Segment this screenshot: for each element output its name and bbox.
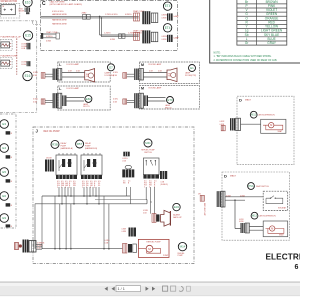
connector CM1 red half <box>113 72 127 78</box>
box J label <box>36 128 61 133</box>
svg-text:M: M <box>271 227 273 231</box>
svg-text:HARNESS-WIRE: HARNESS-WIRE <box>52 23 67 26</box>
wires down from plug P2 <box>126 187 130 204</box>
node M13 label <box>259 114 276 117</box>
node P5A circle <box>248 183 255 190</box>
note text under table <box>214 53 278 63</box>
svg-text:GRAY: GRAY <box>267 41 277 45</box>
divider jog to box C <box>33 21 41 25</box>
ground node G3 <box>0 168 9 177</box>
horn wire labels <box>143 210 149 214</box>
node E15 circle <box>23 31 32 40</box>
D2 wire labels <box>226 196 245 198</box>
table color name column <box>261 0 283 45</box>
wire pair W1 W2 <box>40 16 138 19</box>
svg-text:SWITCH: SWITCH <box>144 152 152 154</box>
svg-text:REFUEL PUMP: REFUEL PUMP <box>146 242 161 244</box>
svg-text:2. WATERPROOF CONNECTORS USED: 2. WATERPROOF CONNECTORS USED ON REAR OF… <box>214 59 278 62</box>
node M13B circle <box>251 212 258 219</box>
svg-text:REF OIL PUMP: REF OIL PUMP <box>44 131 61 133</box>
connector group CG2 red half <box>133 30 145 41</box>
svg-text:ROOM LAMP: ROOM LAMP <box>149 87 162 90</box>
svg-text:1.25RG: 1.25RG <box>104 33 111 35</box>
wire into L1 <box>45 74 53 77</box>
ground node G1 pin <box>6 131 13 135</box>
ground node G4 pin <box>6 203 13 207</box>
bus wire H3 bottom <box>42 248 123 250</box>
branch wires to horn connector <box>35 196 155 249</box>
switch block SW1 wire labels <box>144 181 157 189</box>
node M13B label <box>260 215 277 218</box>
svg-text:1.25RG 0.5RG: 1.25RG 0.5RG <box>105 14 118 16</box>
ground node G5 pin <box>6 224 13 228</box>
divider top-left horizontal <box>0 20 37 22</box>
svg-text:0.5RL: 0.5RL <box>113 99 118 101</box>
connector CL2 red half <box>33 99 45 105</box>
box L1 border <box>58 62 110 82</box>
node M14 label <box>178 253 185 257</box>
connector CL1 black half <box>53 69 62 81</box>
bus wire H1 <box>42 195 130 197</box>
box C title text <box>50 1 83 6</box>
svg-text:RM LTD: RM LTD <box>165 107 173 109</box>
svg-text:0.5GL: 0.5GL <box>21 64 26 66</box>
node ET9 circle <box>167 97 174 104</box>
svg-text:ROOM LAMP: ROOM LAMP <box>149 63 162 66</box>
svg-text:0.5RL: 0.5RL <box>33 72 38 74</box>
svg-text:HARNESS-WIRE: HARNESS-WIRE <box>52 13 67 16</box>
connector CD2 red half <box>198 193 204 201</box>
diode block D5 <box>45 157 54 171</box>
svg-text:FLASHER BACK-UP: FLASHER BACK-UP <box>1 36 22 39</box>
node E80 circle <box>85 95 92 102</box>
svg-text:RM: RM <box>168 76 171 78</box>
svg-text:REFUEL PUMP: REFUEL PUMP <box>203 203 205 217</box>
svg-text:HARNESS-WIRE: HARNESS-WIRE <box>52 19 67 22</box>
box C border <box>40 1 177 51</box>
svg-text:WIPER MOTOR: WIPER MOTOR <box>1 1 18 3</box>
svg-text:E16: E16 <box>25 74 31 78</box>
node M13 circle <box>250 111 257 118</box>
wires M2 <box>148 98 166 102</box>
node E10 circle <box>23 0 32 7</box>
svg-text:PUMP: PUMP <box>163 255 169 257</box>
wire color table grid <box>237 0 287 45</box>
plug P2 component <box>122 165 134 184</box>
connector CT2 under lower ET4 <box>162 35 180 42</box>
node ET9 label <box>165 104 173 109</box>
wire hatch column <box>16 38 18 74</box>
svg-text:MAST: MAST <box>245 99 252 102</box>
svg-text:E10: E10 <box>25 0 31 4</box>
node P5A label <box>256 185 269 188</box>
svg-text:0.5RL: 0.5RL <box>33 99 38 101</box>
svg-text:E1: E1 <box>190 66 194 70</box>
wire into M2 <box>127 100 135 102</box>
connector CM1 black half <box>134 69 143 81</box>
node M14 circle <box>178 242 186 250</box>
svg-text:DOOR LAMP: DOOR LAMP <box>67 87 80 90</box>
svg-text:(WITH CAB ROOF LAMP GUARD): (WITH CAB ROOF LAMP GUARD) <box>50 3 83 6</box>
svg-text:E32: E32 <box>174 205 179 209</box>
node E1 circle <box>189 65 196 72</box>
connector CM2 black half <box>134 93 148 108</box>
ground node G3 pin <box>6 179 13 183</box>
box C label <box>42 1 46 7</box>
node E1 label <box>185 72 196 77</box>
inline connector J1 on W1 <box>82 11 91 19</box>
svg-text:AIR SUSPENSION: AIR SUSPENSION <box>259 114 276 117</box>
svg-text:M: M <box>141 63 144 67</box>
wires down from switch SW1 <box>146 187 154 205</box>
svg-text:E9: E9 <box>2 216 6 220</box>
svg-text:M13: M13 <box>252 214 258 218</box>
stub wires left with battery tap <box>41 31 59 43</box>
svg-text:NOTE:: NOTE: <box>214 53 221 55</box>
box L1 label <box>59 63 79 67</box>
harness label mid rows <box>52 19 67 26</box>
svg-text:5: 5 <box>69 187 70 189</box>
node E7 label <box>105 72 115 77</box>
relay R5T label <box>85 142 98 150</box>
ground node G2 pin <box>6 155 13 159</box>
refuel pump inline connector CP2 <box>123 244 137 254</box>
box D1 label <box>239 97 252 102</box>
svg-text:MAST: MAST <box>230 175 237 178</box>
svg-text:P5A: P5A <box>248 184 253 188</box>
horn BZ1 symbol <box>161 210 171 226</box>
svg-text:ET4: ET4 <box>165 26 171 30</box>
resistor RS1 component <box>122 152 129 163</box>
ground node G4 <box>0 192 9 201</box>
svg-text:0.85B: 0.85B <box>46 41 52 43</box>
svg-text:(HARNESS A): (HARNESS A) <box>61 147 73 150</box>
svg-text:M: M <box>270 123 272 127</box>
box D1 border <box>237 96 294 165</box>
wires L1 <box>62 71 85 77</box>
divider vertical <box>36 21 38 113</box>
relay R3B node circle <box>51 140 59 148</box>
svg-text:RL: RL <box>98 185 100 187</box>
box L2 border <box>58 86 110 110</box>
vertical harness label right of J <box>203 203 205 217</box>
wires M1 <box>143 71 167 77</box>
box M1 border <box>139 62 199 84</box>
lower branch labels <box>104 33 142 42</box>
svg-text:E5: E5 <box>2 170 6 174</box>
relay block K1 wire labels <box>57 181 76 189</box>
svg-text:C: C <box>42 1 46 7</box>
ground node G5 <box>0 214 9 223</box>
svg-text:1 / 1: 1 / 1 <box>118 287 125 291</box>
wires down from relay K1 <box>59 187 74 204</box>
svg-text:FLASHER TURN: FLASHER TURN <box>1 54 18 57</box>
connector CJ-L stub wires <box>36 244 42 249</box>
relay block K2 body <box>81 153 102 175</box>
svg-text:DOOR LAMP: DOOR LAMP <box>67 63 80 66</box>
svg-text:E6: E6 <box>2 194 6 198</box>
relay block K2 wire labels <box>82 181 101 189</box>
svg-text:D: D <box>239 97 242 102</box>
connector CJ-L wire labels <box>37 243 43 250</box>
svg-text:0.85RG: 0.85RG <box>125 14 132 16</box>
svg-text:Gr: Gr <box>245 41 249 45</box>
svg-text:SEAT SWITCH: SEAT SWITCH <box>256 185 269 188</box>
label text above flasher unit FU1 <box>1 1 18 3</box>
wire labels above bus H3 <box>41 240 110 244</box>
svg-text:DR LTD: DR LTD <box>83 106 90 108</box>
lower branch wire pair <box>100 35 139 37</box>
relay R5T node circle <box>76 140 84 148</box>
svg-text:DIODE: DIODE <box>46 157 52 159</box>
svg-text:0.85B: 0.85B <box>162 39 168 41</box>
box M1 label <box>141 63 162 67</box>
flasher unit FU1 body <box>1 5 15 15</box>
page title ELECTRIC <box>266 252 308 261</box>
flasher F1 dashed enclosure <box>0 39 12 50</box>
junction drop wires <box>100 16 102 36</box>
box M2 label <box>141 86 162 90</box>
lamp RH door lamp <box>85 69 95 82</box>
svg-text:R3B: R3B <box>52 142 58 146</box>
lamp center room lamp <box>167 68 177 82</box>
box D2 border <box>222 172 289 240</box>
connector CL2 black half <box>53 93 67 108</box>
connector group CG1 black half <box>142 11 158 24</box>
svg-text:ET9: ET9 <box>167 98 173 102</box>
node ET4 lower circle <box>163 24 171 32</box>
connector CN-B pins with labels <box>21 43 31 50</box>
label FLASHER-2 <box>1 54 18 57</box>
svg-text:ELECTRIC: ELECTRIC <box>266 252 301 261</box>
svg-text:2WAY: 2WAY <box>82 11 88 14</box>
svg-text:E15: E15 <box>25 34 31 38</box>
seat switch sub-box <box>263 191 288 210</box>
refuel pump M3 box <box>138 239 169 257</box>
svg-text:AIR SUSPENSION: AIR SUSPENSION <box>260 215 277 218</box>
svg-text:PUMP: PUMP <box>178 255 184 257</box>
svg-text:0.5RL: 0.5RL <box>113 72 118 74</box>
small connector CN-J <box>160 171 168 186</box>
connector CN-A pins <box>25 8 31 15</box>
node E32 label <box>173 213 182 218</box>
inline connector CD3 <box>239 219 249 233</box>
svg-text:0.85RG: 0.85RG <box>46 36 53 38</box>
svg-text:E7: E7 <box>109 65 113 69</box>
horn connector CH <box>152 214 160 223</box>
svg-text:2: 2 <box>149 187 150 189</box>
connector CJ-L red half at box J left edge <box>15 243 22 250</box>
pump relay M41 label <box>141 150 155 154</box>
svg-text:M14: M14 <box>180 245 186 249</box>
drop wires to bus H3 <box>55 196 109 249</box>
mid wire H1b <box>95 199 146 201</box>
bus wire H2 <box>35 200 147 205</box>
ground node G1 <box>0 120 9 129</box>
connector CD1 red half <box>220 121 226 131</box>
svg-text:E4: E4 <box>2 146 6 150</box>
flasher unit FU1 dashed enclosure <box>0 4 20 18</box>
svg-text:0.5RG 0.5RG: 0.5RG 0.5RG <box>52 11 64 13</box>
svg-text:M: M <box>141 86 144 90</box>
svg-text:ROOM(CTR): ROOM(CTR) <box>185 75 196 77</box>
box J border <box>33 127 194 264</box>
connector CM2 red half <box>113 99 127 105</box>
ground node G2 <box>0 144 9 153</box>
inline connector J2 on lower branch <box>119 34 126 39</box>
svg-text:LAMP: LAMP <box>174 15 180 18</box>
svg-text:ET4: ET4 <box>165 4 171 8</box>
connector group CG1 red half <box>133 10 145 21</box>
svg-text:5: 5 <box>94 187 95 189</box>
flasher F2 body with zigzag <box>1 60 11 66</box>
svg-text:SW-SEAT: SW-SEAT <box>278 207 287 210</box>
svg-text:LAMP: LAMP <box>174 37 180 40</box>
relay block K1 body <box>56 153 77 175</box>
svg-text:1. "BR" INDICATES BLACK CABLE: 1. "BR" INDICATES BLACK CABLE WITH RED S… <box>214 55 272 58</box>
svg-text:2W: 2W <box>198 193 201 195</box>
box D2 label <box>224 173 237 178</box>
svg-text:6: 6 <box>295 264 299 271</box>
svg-text:D: D <box>224 173 227 178</box>
refuel pump connector CP red half <box>122 228 137 237</box>
wire into M1 <box>127 74 135 77</box>
relay R3B label <box>61 142 73 150</box>
pump relay M41 node circle <box>144 139 152 147</box>
svg-text:1: 1 <box>82 187 83 189</box>
page number 6 <box>295 264 299 271</box>
svg-text:M41: M41 <box>145 141 151 145</box>
connector CT1 under ET4 <box>162 13 180 20</box>
wires down from relay K2 <box>84 187 99 204</box>
svg-text:1: 1 <box>57 187 58 189</box>
connector group CG2 black half <box>142 30 158 43</box>
svg-text:R5T: R5T <box>77 142 83 146</box>
table abbreviation column <box>245 0 249 45</box>
connector CD2 black half <box>217 191 225 207</box>
svg-text:0.85B: 0.85B <box>162 17 168 19</box>
seat motor sub-box <box>261 119 286 133</box>
svg-text:1.25RG 0.85RG: 1.25RG 0.85RG <box>128 33 142 35</box>
svg-text:(HARNESS B): (HARNESS B) <box>85 147 98 150</box>
connector CN-A wire labels <box>19 8 25 12</box>
relay block K1 connector row <box>56 175 77 179</box>
svg-text:1: 1 <box>144 187 145 189</box>
node ET4 upper circle <box>163 2 171 10</box>
flasher F2 dashed enclosure <box>0 58 12 69</box>
box M2 border <box>139 86 199 110</box>
wire D1 <box>241 123 261 125</box>
connector CJ-L black half <box>23 240 37 253</box>
wires L2 <box>66 98 84 102</box>
svg-text:(SHIELD): (SHIELD) <box>161 184 169 186</box>
svg-text:E3: E3 <box>2 122 6 126</box>
divider lower horizontal <box>0 112 37 114</box>
svg-text:0.5LW: 0.5LW <box>19 11 25 13</box>
connector CN-C pins with labels <box>21 61 31 66</box>
svg-text:0.85B: 0.85B <box>110 39 116 41</box>
switch block SW1 connector row <box>143 175 159 179</box>
label FLASHER-1 <box>1 36 22 39</box>
svg-text:E80: E80 <box>86 97 91 101</box>
switch block SW1 body <box>143 158 159 175</box>
connector CD1 black half <box>230 118 241 130</box>
node E80 label <box>83 103 90 108</box>
ground strip box border <box>0 114 16 228</box>
node E16 circle <box>23 71 32 80</box>
svg-text:BACK-UP: BACK-UP <box>173 216 182 219</box>
node E32 circle <box>173 203 180 210</box>
suspension motor sub-box <box>263 221 288 237</box>
box L2 label <box>59 87 79 91</box>
box D2 wires <box>225 197 263 230</box>
node E7 circle <box>108 64 115 71</box>
connector CL1 red half <box>33 72 45 78</box>
wire W1 labels <box>52 11 132 16</box>
frame around color table <box>210 0 300 63</box>
relay block K2 connector row <box>81 175 102 179</box>
flasher F1 body with zigzag <box>1 42 11 48</box>
svg-text:M13: M13 <box>251 113 257 117</box>
wire into L2 <box>45 100 53 102</box>
